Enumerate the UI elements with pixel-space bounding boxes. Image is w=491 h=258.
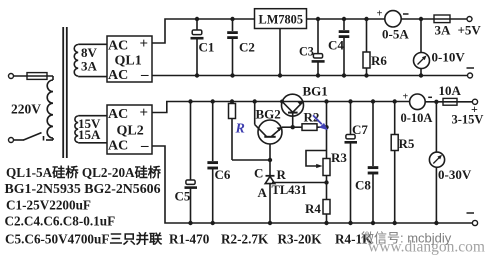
svg-text:+: + [377,8,383,19]
svg-text:10A: 10A [439,83,462,98]
capacitor C6 [212,102,214,162]
resistor R5 [394,102,396,135]
needle of 0-30V voltmeter [433,155,442,164]
output terminal minus 5V [468,73,473,78]
transistor BG1 [282,94,304,116]
svg-text:C2: C2 [239,40,255,55]
wire [78,43,107,45]
ammeter 0-5A [385,11,401,27]
svg-text:R6: R6 [371,53,387,68]
wire [401,18,434,20]
bridge rectifier QL2 [107,105,152,154]
svg-text:C2.C4.C6.C8-0.1uF: C2.C4.C6.C8-0.1uF [5,214,116,229]
minus sign ammeter 0-10A [428,96,432,98]
svg-text:0-30V: 0-30V [438,167,472,182]
output terminal minus 15V [472,220,477,225]
regulator U1 LM7805 [255,9,307,29]
TL431 U2 [266,175,275,177]
svg-text:C8: C8 [355,178,371,193]
svg-text:+: + [140,105,149,121]
capacitor C2 [232,19,234,31]
bridge rectifier QL1 [107,36,152,82]
svg-text:QL1: QL1 [115,54,142,69]
svg-text:BG2: BG2 [256,107,281,122]
fuse 10A [436,101,472,103]
resistor R2 [293,126,302,128]
svg-text:C7: C7 [352,122,368,137]
svg-text:TL431: TL431 [272,183,307,197]
transformer T primary winding [47,80,53,138]
junction dots top section [195,17,423,78]
svg-text:0-10A: 0-10A [401,111,433,125]
wire BG2 base down to TL431 [269,144,271,176]
potentiometer R3 [323,159,330,176]
fuse 3A [434,18,467,20]
svg-text:C6: C6 [215,167,231,182]
transformer core [62,27,64,158]
minus sign [467,212,475,214]
svg-text:C4: C4 [328,38,344,53]
svg-text:C1: C1 [199,40,215,55]
svg-text:C3: C3 [299,45,314,59]
svg-text:R1-470: R1-470 [169,232,210,247]
wire [52,138,54,140]
transformer secondary 15V winding [75,116,78,142]
voltmeter 0-30V branch [435,102,437,152]
bottom notes text [5,164,374,247]
wire QL2 plus to rail [152,102,410,113]
svg-text:QL2: QL2 [117,124,144,139]
svg-text:C5: C5 [175,189,191,204]
svg-text:–: – [140,67,149,83]
svg-text:15A: 15A [78,127,101,142]
svg-text:R2: R2 [304,109,320,124]
svg-text:www.diangon.com: www.diangon.com [368,239,485,256]
capacitor C8 [372,102,374,167]
svg-text:QL1-5A硅桥 QL2-20A硅桥: QL1-5A硅桥 QL2-20A硅桥 [6,164,162,180]
capacitor C3 [317,19,319,54]
svg-text:R3-20K: R3-20K [278,232,323,247]
svg-text:–: – [140,138,149,154]
wire ground rail top section [152,75,468,77]
svg-text:+: + [140,36,149,52]
svg-text:R5: R5 [399,136,415,151]
svg-text:AC: AC [108,39,128,54]
switch S [24,133,42,140]
needle of 0-10V voltmeter [418,56,427,65]
wire LM7805 gnd pin [279,29,281,76]
wire [78,115,107,117]
svg-text:3-15V: 3-15V [452,113,484,127]
wire TL431 ref [272,182,327,184]
wire [78,142,107,144]
capacitor C5 [190,102,192,181]
svg-text:R4: R4 [305,201,321,216]
wire QL2 minus down to bottom rail [152,146,472,223]
svg-text:R: R [235,122,245,137]
transformer secondary 8V winding [74,45,78,77]
capacitor C1 [196,19,198,30]
blue annotation arrow [313,115,328,130]
svg-text:C5.C6-50V4700uF三只并联: C5.C6-50V4700uF三只并联 [5,231,163,247]
capacitor C7 [350,102,352,135]
junction dots section 2 [188,99,438,225]
svg-text:LM7805: LM7805 [259,13,304,27]
wire [14,75,54,77]
wire divider line [326,102,328,159]
wire BG1 base [292,113,294,128]
svg-text:C: C [254,166,263,181]
svg-text:R2-2.7K: R2-2.7K [221,232,269,247]
output terminal +5V [467,17,472,22]
svg-text:220V: 220V [11,102,41,117]
output terminal +3-15V [472,99,477,104]
wire BG2 emitter to BG1 base [282,126,293,128]
svg-text:0-5A: 0-5A [382,27,409,42]
ammeter 0-10A [410,94,426,110]
svg-text:R: R [277,167,287,182]
svg-text:A: A [258,185,268,200]
input terminal bottom [9,138,14,143]
minus sign [467,67,475,69]
wire [78,76,107,78]
fuse FU input [27,73,47,80]
svg-text:C1-25V2200uF: C1-25V2200uF [6,197,91,212]
capacitor C4 [343,19,345,30]
svg-text:AC: AC [108,68,128,83]
svg-text:0-10V: 0-10V [432,50,466,65]
svg-text:3A: 3A [435,23,452,38]
resistor R4 [323,200,330,215]
svg-text:BG1-2N5935 BG2-2N5606: BG1-2N5935 BG2-2N5606 [5,181,161,196]
wire R1 to BG2 base node [232,159,270,161]
svg-text:AC: AC [108,107,128,122]
svg-text:BG1: BG1 [303,84,328,99]
wire QL1 plus to top rail [152,19,255,43]
ammeter minus sign [403,13,409,15]
svg-text:R3: R3 [331,150,347,165]
svg-text:+: + [403,92,409,103]
voltmeter 0-10V [420,19,422,53]
svg-text:3A: 3A [81,59,98,74]
svg-text:+5V: +5V [458,23,482,38]
input terminal top [9,74,14,79]
resistor R6 [366,19,368,52]
wire top rail output [307,18,385,20]
wire [14,139,25,141]
transistor BG2 [258,120,282,144]
resistor R1 [231,102,233,104]
svg-text:AC: AC [108,139,128,154]
wire [52,76,54,80]
